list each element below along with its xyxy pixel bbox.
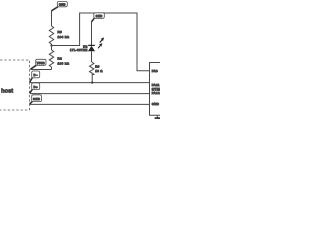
resistor R2 bbox=[49, 50, 53, 67]
svg-text:GND: GND bbox=[152, 102, 159, 106]
wire D+ to PA12 bbox=[30, 93, 150, 95]
STM32 box bbox=[150, 63, 161, 116]
net flag GND (host side) bbox=[30, 95, 42, 104]
ground flag GND (above LED) bbox=[92, 13, 105, 22]
resistor R6 bbox=[90, 62, 94, 75]
svg-text:D–: D– bbox=[34, 73, 38, 77]
LED emission arrow 1 bbox=[100, 40, 102, 43]
svg-text:GND: GND bbox=[33, 97, 40, 101]
ground stub below STM box bbox=[156, 115, 158, 117]
net flag D- bbox=[30, 71, 40, 82]
svg-text:R2: R2 bbox=[58, 57, 63, 61]
wire GND to STM GND bbox=[30, 103, 150, 105]
wire GND1 to R3 bbox=[51, 11, 53, 27]
svg-text:194 kΩ: 194 kΩ bbox=[58, 35, 70, 39]
wire R2 to VUSB wire bbox=[51, 67, 53, 70]
svg-text:host: host bbox=[1, 88, 13, 94]
wire VUSB bbox=[31, 69, 52, 71]
LED D2 cathode bar bbox=[88, 44, 95, 46]
svg-text:VUSB: VUSB bbox=[37, 62, 45, 65]
resistor R3 bbox=[49, 26, 53, 44]
ground flag GND (top left, net label) bbox=[52, 2, 68, 11]
svg-text:PA9: PA9 bbox=[152, 69, 158, 73]
svg-text:GND: GND bbox=[59, 3, 66, 7]
svg-text:R3: R3 bbox=[58, 30, 63, 34]
wire J1 to R2 bbox=[51, 46, 53, 51]
svg-text:GND: GND bbox=[96, 14, 103, 18]
wire GND2 to LED cathode bbox=[91, 22, 93, 46]
LED D2 triangle (anode below) bbox=[88, 46, 95, 51]
node J1 (divider tap junction) bbox=[50, 44, 52, 46]
wire D- to PA11 bbox=[30, 82, 150, 84]
junction on D- line bbox=[91, 82, 93, 84]
svg-text:D+: D+ bbox=[34, 85, 38, 89]
svg-text:100 kΩ: 100 kΩ bbox=[58, 61, 70, 65]
svg-text:PA12: PA12 bbox=[152, 91, 160, 95]
wire R6 to D- line bbox=[91, 75, 94, 83]
host connector dashed outline bbox=[0, 60, 30, 110]
net flag D+ bbox=[30, 83, 40, 93]
wire LED anode to R6 bbox=[91, 51, 93, 62]
net flag VUSB bbox=[30, 59, 46, 69]
wire R3 to node J1 bbox=[51, 44, 53, 46]
svg-text:LTL-307EE: LTL-307EE bbox=[70, 48, 88, 52]
svg-text:16 Ω: 16 Ω bbox=[95, 69, 103, 73]
LED emission arrow 2 bbox=[98, 46, 100, 49]
wire node J1 to PA9 (routed over the top) bbox=[52, 13, 150, 71]
